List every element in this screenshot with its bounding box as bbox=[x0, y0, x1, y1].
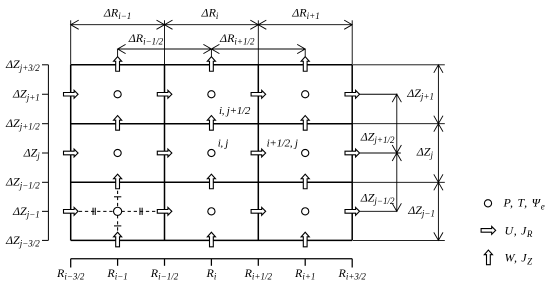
wire: vertical grid line R at x=164.5 bbox=[164, 65, 166, 241]
wire: horizontal grid line Z at y=182.3 bbox=[71, 181, 353, 183]
svg-text:P, T, Ψe: P, T, Ψe bbox=[503, 196, 546, 212]
wire: vertical grid line R at x=258.3 bbox=[257, 65, 259, 241]
left label bracket ticks bbox=[42, 64, 48, 66]
W block arrow at (305.2,123.7) bbox=[301, 116, 309, 131]
U block arrow at (70.7,153.0) bbox=[64, 149, 79, 157]
U block arrow at (352.2,94.25) bbox=[345, 90, 360, 98]
arrowheads dR row 1 bbox=[71, 20, 79, 29]
svg-text:i, j: i, j bbox=[218, 137, 229, 149]
U block arrow at (258.3,94.25) bbox=[251, 90, 266, 98]
W block arrow at (211.4,240.4) bbox=[207, 232, 215, 247]
single tick above node i-1,j-1 bbox=[114, 196, 121, 198]
arrowheads right inner bbox=[392, 94, 401, 102]
node circle P at (211.4,211.35) bbox=[208, 208, 215, 215]
U block arrow at (70.7,211.35) bbox=[64, 207, 79, 215]
wire: vertical grid line R at x=70.7 bbox=[70, 65, 72, 241]
node circle P at (305.2,94.25) bbox=[302, 91, 309, 98]
node circle P at (305.2,211.35) bbox=[302, 208, 309, 215]
single tick below node i-1,j-1 bbox=[114, 225, 121, 227]
arrowheads dR row 2 bbox=[118, 44, 126, 53]
U block arrow at (258.3,153.0) bbox=[251, 149, 266, 157]
legend U arrow symbol bbox=[481, 226, 496, 234]
svg-text:i+1/2, j: i+1/2, j bbox=[267, 137, 298, 149]
W block arrow at (211.4,123.7) bbox=[207, 116, 215, 131]
svg-text:i, j+1/2: i, j+1/2 bbox=[219, 105, 251, 117]
node circle P at (211.4,153.0) bbox=[208, 149, 215, 156]
W block arrow at (305.2,64.8) bbox=[301, 57, 309, 72]
dimension line dR row 1 bbox=[71, 24, 353, 26]
wire: horizontal grid line Z at y=64.8 bbox=[71, 64, 353, 66]
legend W arrow symbol bbox=[484, 250, 492, 265]
wire: horizontal grid line Z at y=123.7 bbox=[71, 123, 353, 125]
U block arrow at (258.3,211.35) bbox=[251, 207, 266, 215]
dimension line dR row 2 bbox=[118, 48, 306, 50]
dashed vertical line through node i-1,j-1 bbox=[117, 191, 119, 237]
dashed horizontal line through node i-1,j-1 bbox=[79, 210, 157, 212]
node circle P at (117.6,153.0) bbox=[114, 149, 121, 156]
bottom ruler ticks bbox=[70, 259, 72, 268]
legend circle symbol bbox=[484, 200, 491, 207]
W block arrow at (117.6,123.7) bbox=[114, 116, 122, 131]
node circle P at (117.6,211.35) bbox=[114, 207, 122, 215]
node circle P at (305.2,153.0) bbox=[302, 149, 309, 156]
extension lines for top dimension row 1 bbox=[70, 20, 72, 64]
U block arrow at (70.7,94.25) bbox=[64, 90, 79, 98]
wire: vertical grid line R at x=352.2 bbox=[351, 65, 353, 241]
U block arrow at (352.2,211.35) bbox=[345, 207, 360, 215]
connector lines for right inner dimension bbox=[353, 93, 398, 95]
W block arrow at (211.4,182.3) bbox=[207, 174, 215, 189]
double tick at i-3/2..i-1 midpoint bbox=[92, 208, 94, 215]
W block arrow at (117.6,64.8) bbox=[114, 57, 122, 72]
left label bracket vertical line bbox=[47, 65, 49, 241]
dimension line right outer bbox=[437, 65, 439, 241]
extension stubs below dR row 2 bbox=[117, 49, 119, 57]
wire: horizontal grid line Z at y=240.4 bbox=[71, 239, 353, 241]
dimension line right inner bbox=[396, 94, 398, 211]
extension lines for right outer dimension bbox=[353, 64, 445, 66]
U block arrow at (164.5,211.35) bbox=[157, 207, 172, 215]
W block arrow at (117.6,240.4) bbox=[114, 232, 122, 247]
W block arrow at (211.4,64.8) bbox=[207, 57, 215, 72]
U block arrow at (164.5,153.0) bbox=[157, 149, 172, 157]
node circle P at (117.6,94.25) bbox=[114, 91, 121, 98]
W block arrow at (305.2,182.3) bbox=[301, 174, 309, 189]
node circle P at (211.4,94.25) bbox=[208, 91, 215, 98]
double tick at i-1..i-1/2 midpoint bbox=[139, 208, 141, 215]
arrowheads right outer bbox=[434, 65, 443, 73]
U block arrow at (164.5,94.25) bbox=[157, 90, 172, 98]
bottom ruler line bbox=[71, 258, 353, 260]
W block arrow at (117.6,182.3) bbox=[114, 174, 122, 189]
U block arrow at (352.2,153.0) bbox=[345, 149, 360, 157]
W block arrow at (305.2,240.4) bbox=[301, 232, 309, 247]
